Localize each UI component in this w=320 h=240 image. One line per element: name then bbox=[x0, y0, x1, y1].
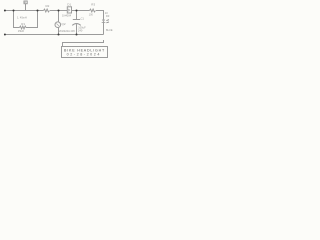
svg-text:Q2: Q2 bbox=[62, 22, 66, 26]
svg-text:1N4004: 1N4004 bbox=[62, 14, 72, 18]
svg-text:BLUE: BLUE bbox=[106, 29, 113, 32]
svg-text:D1: D1 bbox=[67, 2, 71, 6]
svg-text:02-28-2024: 02-28-2024 bbox=[67, 52, 101, 56]
svg-text:1. 45mH: 1. 45mH bbox=[17, 16, 27, 20]
svg-text:R2: R2 bbox=[46, 4, 50, 8]
svg-text:D3: D3 bbox=[106, 14, 110, 18]
svg-text:R3: R3 bbox=[91, 2, 95, 6]
svg-text:100: 100 bbox=[89, 13, 94, 16]
svg-text:15kR: 15kR bbox=[18, 29, 24, 33]
svg-text:2N2222A 40V: 2N2222A 40V bbox=[59, 29, 75, 33]
svg-text:R1: R1 bbox=[21, 22, 25, 26]
svg-text:240: 240 bbox=[78, 29, 83, 33]
svg-text:C1: C1 bbox=[81, 17, 85, 21]
svg-text:S1: S1 bbox=[23, 0, 27, 4]
